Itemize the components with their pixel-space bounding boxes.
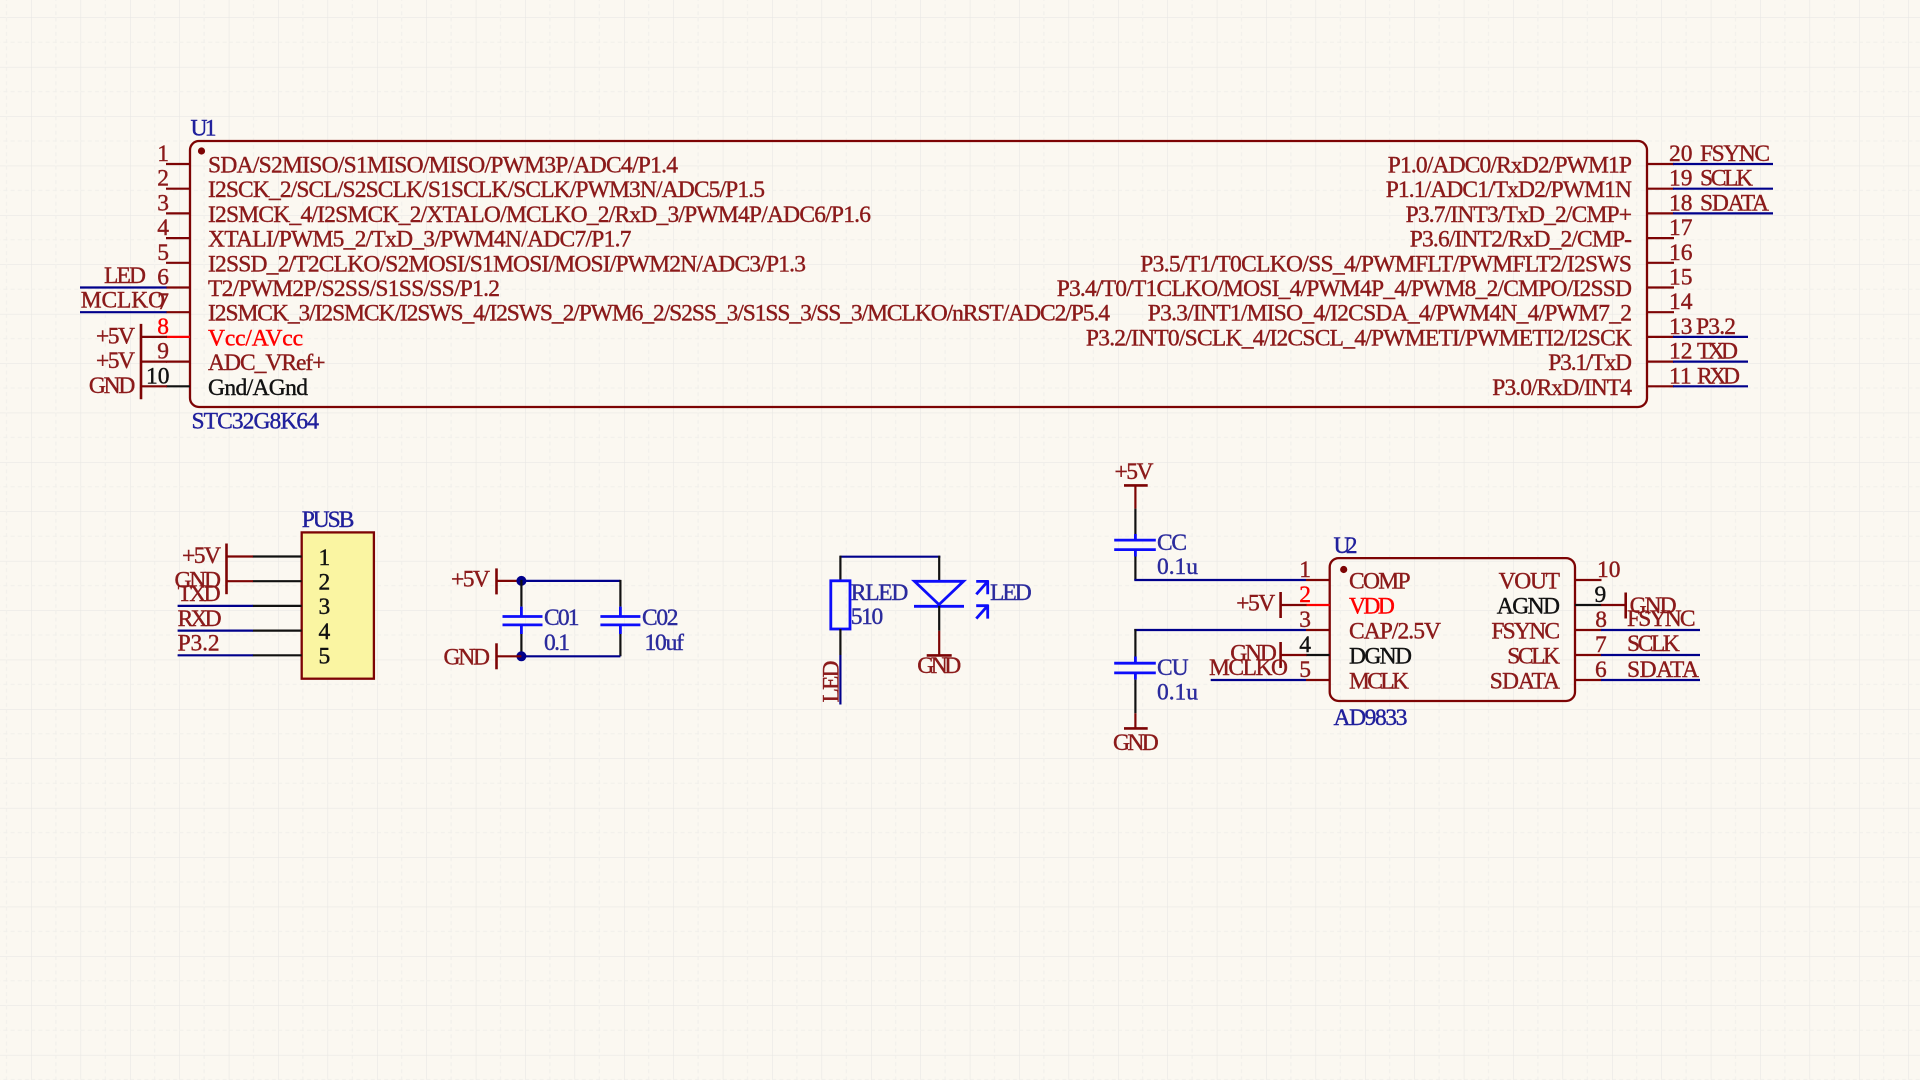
svg-text:0.1u: 0.1u xyxy=(1157,680,1198,706)
U2 left pin stubs xyxy=(1306,580,1330,680)
svg-text:MCLKO: MCLKO xyxy=(81,288,165,314)
wire CU to U2 pin 3 xyxy=(1134,629,1306,631)
capacitor CC bottom lead xyxy=(1134,550,1137,557)
wire net SCLK at U2 pin 7 xyxy=(1601,654,1700,656)
svg-text:GND: GND xyxy=(89,373,136,399)
svg-text:Gnd/AGnd: Gnd/AGnd xyxy=(208,375,308,401)
U1 pin 9 stub xyxy=(166,361,190,363)
svg-text:RXD: RXD xyxy=(1697,363,1740,389)
svg-text:SDA/S2MISO/S1MISO/MISO/PWM3P/A: SDA/S2MISO/S1MISO/MISO/PWM3P/ADC4/P1.4 xyxy=(208,153,678,179)
svg-text:SCLK: SCLK xyxy=(1700,166,1753,192)
svg-text:4: 4 xyxy=(319,619,331,645)
power port bar +5V (C01/C02) xyxy=(495,568,498,594)
wire net MCLKO to U2 pin 5 xyxy=(1211,679,1306,681)
capacitor CU plates xyxy=(1114,663,1156,673)
svg-text:AD9833: AD9833 xyxy=(1334,705,1408,731)
wire net SCLK at U1 pin 19 xyxy=(1673,188,1773,190)
PUSB pin stubs 1-5 xyxy=(253,557,302,656)
svg-text:C02: C02 xyxy=(642,605,679,631)
svg-text:P1.0/ADC0/RxD2/PWM1P: P1.0/ADC0/RxD2/PWM1P xyxy=(1388,153,1632,179)
svg-text:+5V: +5V xyxy=(451,567,490,593)
svg-text:SDATA: SDATA xyxy=(1627,657,1699,683)
svg-text:1: 1 xyxy=(157,141,169,167)
svg-text:C01: C01 xyxy=(544,605,580,631)
junction dot top xyxy=(516,576,526,586)
wire +5V to U1 pin 9 xyxy=(141,361,167,363)
capacitor C02 plates xyxy=(600,617,640,625)
svg-text:VDD: VDD xyxy=(1349,594,1395,620)
wire top RLED to LED diode xyxy=(840,556,941,558)
svg-text:MCLKO: MCLKO xyxy=(1209,655,1288,681)
power port +5V bar (U2 pin 2) xyxy=(1279,592,1282,618)
LED diode D1 bottom pin xyxy=(938,606,940,631)
svg-text:FSYNC: FSYNC xyxy=(1491,619,1560,645)
LED diode D1 emission arrow 2 xyxy=(976,605,988,619)
power port bar at U1 pins 8-10 xyxy=(140,324,143,399)
capacitor C02 bottom lead xyxy=(619,625,622,634)
junction dot bottom xyxy=(516,651,526,661)
svg-text:P3.6/INT2/RxD_2/CMP-: P3.6/INT2/RxD_2/CMP- xyxy=(1410,227,1632,253)
capacitor C01 top lead xyxy=(520,580,522,607)
svg-text:3: 3 xyxy=(157,190,169,216)
svg-text:P3.0/RxD/INT4: P3.0/RxD/INT4 xyxy=(1492,375,1632,401)
wire GND to junction xyxy=(497,655,522,657)
svg-text:STC32G8K64: STC32G8K64 xyxy=(192,408,320,434)
U2 pin 4 stub (black ground pin) xyxy=(1306,654,1330,656)
power port GND bar (U2 pin 4) xyxy=(1279,642,1282,668)
wire net TXD to PUSB pin 3 xyxy=(178,605,253,607)
IC U2 body xyxy=(1330,558,1575,701)
svg-text:I2SMCK_4/I2SMCK_2/XTALO/MCLKO_: I2SMCK_4/I2SMCK_2/XTALO/MCLKO_2/RxD_3/PW… xyxy=(208,202,871,228)
capacitor C02 top lead xyxy=(619,580,621,607)
wire net LED below RLED xyxy=(839,655,841,705)
U2 right pin stubs xyxy=(1575,580,1602,680)
svg-text:XTALI/PWM5_2/TxD_3/PWM4N/ADC7/: XTALI/PWM5_2/TxD_3/PWM4N/ADC7/P1.7 xyxy=(208,227,632,253)
svg-text:GND: GND xyxy=(1113,730,1159,756)
wire net TXD at U1 pin 12 xyxy=(1673,361,1748,363)
svg-text:10: 10 xyxy=(1597,557,1621,583)
LED diode D1 triangle xyxy=(915,581,964,604)
svg-text:GND: GND xyxy=(444,645,491,671)
svg-text:P1.1/ADC1/TxD2/PWM1N: P1.1/ADC1/TxD2/PWM1N xyxy=(1386,177,1632,203)
svg-text:SDATA: SDATA xyxy=(1700,190,1769,216)
U1 pin 10 stub (black ground pin) xyxy=(166,385,190,387)
capacitor CC plates xyxy=(1114,540,1156,550)
power port bar GND (C01/C02) xyxy=(495,643,498,669)
ground symbol below LED diode xyxy=(938,631,940,656)
svg-text:LED: LED xyxy=(104,263,146,289)
svg-text:510: 510 xyxy=(851,604,884,630)
wire net MCLKO at U1 pin 7 xyxy=(80,311,167,313)
capacitor C01 bottom lead xyxy=(520,625,523,634)
svg-text:10uf: 10uf xyxy=(645,630,685,656)
power port +5V bar (CC) xyxy=(1124,484,1148,487)
resistor RLED bottom pin xyxy=(839,629,841,655)
power port bar at PUSB pins 1-2 xyxy=(225,544,228,595)
wire bottom bus C01-C02 xyxy=(521,655,620,657)
ground symbol below CU xyxy=(1134,713,1136,728)
svg-text:RLED: RLED xyxy=(851,580,909,606)
svg-text:U2: U2 xyxy=(1334,533,1358,559)
svg-text:1: 1 xyxy=(319,545,331,571)
wire net SDATA at U2 pin 6 xyxy=(1601,679,1700,681)
wire +5V to PUSB pin 1 xyxy=(227,555,254,557)
svg-text:14: 14 xyxy=(1669,289,1693,315)
svg-text:TXD: TXD xyxy=(178,581,221,607)
svg-text:+5V: +5V xyxy=(1236,590,1275,616)
svg-text:TXD: TXD xyxy=(1697,339,1738,365)
capacitor CC top lead xyxy=(1134,509,1136,534)
svg-text:SCLK: SCLK xyxy=(1627,631,1680,657)
svg-text:COMP: COMP xyxy=(1349,569,1411,595)
svg-text:FSYNC: FSYNC xyxy=(1627,606,1696,632)
wire GND to PUSB pin 2 xyxy=(227,580,254,582)
svg-text:LED: LED xyxy=(990,580,1032,606)
svg-text:15: 15 xyxy=(1669,265,1693,291)
U2 pin 2 stub (red power pin) xyxy=(1306,604,1330,606)
capacitor C01 plates xyxy=(503,617,543,625)
IC U1 body xyxy=(190,141,1647,407)
U2 pin 9 stub (black ground pin) xyxy=(1575,604,1602,606)
svg-text:LED: LED xyxy=(819,660,845,702)
wire +5V to U2 pin 2 xyxy=(1281,604,1307,606)
svg-text:Vcc/AVcc: Vcc/AVcc xyxy=(208,325,303,351)
power port GND bar (U2 pin 9) xyxy=(1624,593,1627,619)
IC U2 pin-1 dot xyxy=(1340,566,1347,573)
svg-text:P3.3/INT1/MISO_4/I2CSDA_4/PWM4: P3.3/INT1/MISO_4/I2CSDA_4/PWM4N_4/PWM7_2 xyxy=(1148,301,1632,327)
wire GND to U1 pin 10 xyxy=(141,385,167,387)
svg-text:I2SSD_2/T2CLKO/S2MOSI/S1MOSI/M: I2SSD_2/T2CLKO/S2MOSI/S1MOSI/MOSI/PWM2N/… xyxy=(208,251,806,277)
svg-text:5: 5 xyxy=(157,240,169,266)
wire net RXD at U1 pin 11 xyxy=(1673,385,1748,387)
svg-text:3: 3 xyxy=(319,594,331,620)
svg-text:4: 4 xyxy=(157,215,169,241)
capacitor CU bottom lead xyxy=(1134,673,1137,680)
resistor RLED body xyxy=(831,581,850,629)
wire +5V to junction xyxy=(497,580,522,582)
svg-text:P3.4/T0/T1CLKO/MOSI_4/PWM4P_4/: P3.4/T0/T1CLKO/MOSI_4/PWM4P_4/PWM8_2/CMP… xyxy=(1057,276,1632,302)
wire net P3.2 to PUSB pin 5 xyxy=(178,654,253,656)
svg-text:P3.5/T1/T0CLKO/SS_4/PWMFLT/PWM: P3.5/T1/T0CLKO/SS_4/PWMFLT/PWMFLT2/I2SWS xyxy=(1140,251,1632,277)
resistor RLED top pin xyxy=(839,556,841,581)
U1 left pin stubs 1-7 xyxy=(166,164,190,312)
wire net SDATA at U1 pin 18 xyxy=(1673,212,1773,214)
LED diode D1 cathode bar xyxy=(914,605,964,608)
svg-text:P3.7/INT3/TxD_2/CMP+: P3.7/INT3/TxD_2/CMP+ xyxy=(1406,202,1632,228)
LED diode D1 top pin xyxy=(938,556,940,581)
svg-text:RXD: RXD xyxy=(178,606,222,632)
wire GND to U2 pin 4 xyxy=(1281,654,1307,656)
svg-text:I2SMCK_3/I2SMCK/I2SWS_4/I2SWS_: I2SMCK_3/I2SMCK/I2SWS_4/I2SWS_2/PWM6_2/S… xyxy=(208,301,1110,327)
svg-text:SCLK: SCLK xyxy=(1507,644,1560,670)
wire net FSYNC at U1 pin 20 xyxy=(1673,163,1773,165)
svg-text:5: 5 xyxy=(319,644,331,670)
svg-text:17: 17 xyxy=(1669,215,1693,241)
svg-text:2: 2 xyxy=(157,166,169,192)
svg-text:16: 16 xyxy=(1669,240,1693,266)
IC U1 pin-1 dot xyxy=(198,147,205,154)
svg-text:P3.2/INT0/SCLK_4/I2CSCL_4/PWME: P3.2/INT0/SCLK_4/I2CSCL_4/PWMETI/PWMETI2… xyxy=(1086,325,1632,351)
svg-text:P3.1/TxD: P3.1/TxD xyxy=(1548,350,1632,376)
wire top bus C01-C02 xyxy=(521,580,620,582)
svg-text:MCLK: MCLK xyxy=(1349,669,1409,695)
svg-text:2: 2 xyxy=(319,570,331,596)
svg-text:+5V: +5V xyxy=(182,543,221,569)
svg-text:T2/PWM2P/S2SS/S1SS/SS/P1.2: T2/PWM2P/S2SS/S1SS/SS/P1.2 xyxy=(208,276,500,302)
svg-text:U1: U1 xyxy=(191,115,217,141)
svg-text:CU: CU xyxy=(1157,655,1189,681)
power port +5V stem (CC) xyxy=(1134,485,1136,508)
svg-text:I2SCK_2/SCL/S2SCLK/S1SCLK/SCLK: I2SCK_2/SCL/S2SCLK/S1SCLK/SCLK/PWM3N/ADC… xyxy=(208,177,765,203)
capacitor CU top lead xyxy=(1134,629,1136,657)
wire net LED at U1 pin 6 xyxy=(80,286,167,288)
svg-text:CAP/2.5V: CAP/2.5V xyxy=(1349,619,1441,645)
U1 right pin stubs 11-20 xyxy=(1647,164,1674,386)
svg-text:CC: CC xyxy=(1157,530,1187,556)
svg-text:GND: GND xyxy=(917,653,961,679)
wire +5V to U1 pin 8 xyxy=(141,336,167,338)
wire net FSYNC at U2 pin 8 xyxy=(1601,629,1700,631)
svg-text:0.1u: 0.1u xyxy=(1157,554,1198,580)
U1 pin 8 stub (red power pin) xyxy=(166,336,190,338)
wire net RXD to PUSB pin 4 xyxy=(178,629,253,631)
svg-text:0.1: 0.1 xyxy=(544,630,570,656)
svg-text:VOUT: VOUT xyxy=(1499,569,1560,595)
svg-text:ADC_VRef+: ADC_VRef+ xyxy=(208,350,326,376)
svg-text:+5V: +5V xyxy=(96,348,135,374)
wire net P3.2 at U1 pin 13 xyxy=(1673,336,1748,338)
LED diode D1 emission arrow 1 xyxy=(976,580,988,594)
svg-text:1: 1 xyxy=(1299,557,1311,583)
svg-text:PUSB: PUSB xyxy=(302,507,355,533)
wire GND to U2 pin 9 xyxy=(1601,604,1625,606)
wire CC to U2 pin 1 xyxy=(1134,579,1306,581)
svg-text:DGND: DGND xyxy=(1349,644,1412,670)
svg-text:P3.2: P3.2 xyxy=(1696,314,1736,340)
svg-text:SDATA: SDATA xyxy=(1490,669,1560,695)
svg-text:AGND: AGND xyxy=(1497,594,1560,620)
connector PUSB body xyxy=(302,532,374,678)
svg-text:+5V: +5V xyxy=(96,324,135,350)
svg-text:P3.2: P3.2 xyxy=(178,631,220,657)
svg-text:+5V: +5V xyxy=(1115,459,1154,485)
svg-text:FSYNC: FSYNC xyxy=(1700,141,1770,167)
